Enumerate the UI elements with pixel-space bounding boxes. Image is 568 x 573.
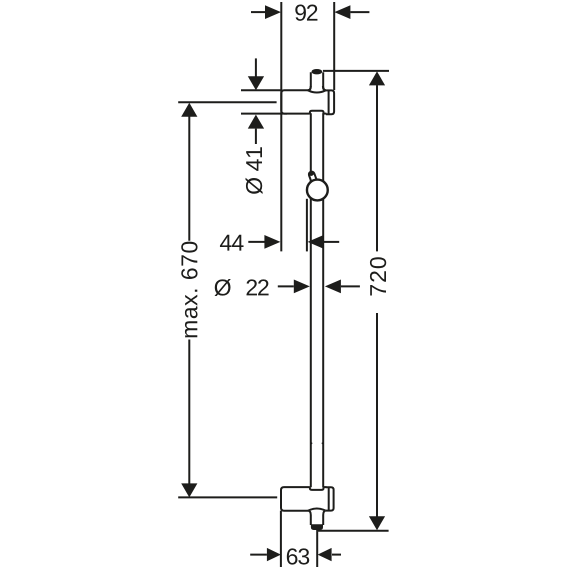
- node extension line 63 right: [316, 532, 318, 567]
- wire dimension 44 left tail: [248, 241, 264, 243]
- wire dimension max670 line lower: [188, 340, 190, 484]
- wire extension line max670 top: [178, 101, 276, 103]
- node extension line 63 left: [280, 511, 282, 567]
- label 720: [370, 257, 386, 295]
- node arrow 63 left: [318, 548, 332, 561]
- node arrow 92 right: [334, 5, 350, 19]
- node arrow 44 left: [308, 235, 324, 249]
- wire dimension 92 right tail: [350, 11, 369, 13]
- label max670: [181, 242, 197, 338]
- component rail top end cap: [312, 70, 321, 74]
- wire dimension 92 left tail: [251, 11, 265, 13]
- wire extension line 720 top: [323, 70, 389, 72]
- wire slider sleeve edge: [306, 199, 308, 252]
- wire dimension O41 lower line: [255, 129, 257, 144]
- wire rail left edge: [308, 72, 311, 525]
- component slider knob: [307, 180, 328, 201]
- node extension line 92 left / 44 left: [280, 2, 282, 251]
- wire extension line O41 bottom: [241, 113, 287, 115]
- label O22 value: [247, 279, 269, 295]
- label 92: [295, 5, 317, 21]
- node arrow 720 down: [369, 516, 385, 530]
- wire dimension 44 right tail: [324, 241, 340, 243]
- node arrow O22 right: [294, 280, 310, 294]
- node extension line 92 right: [333, 2, 335, 90]
- node arrow 720 up: [369, 71, 385, 85]
- component rail bottom end cap: [311, 524, 323, 530]
- component top wall bracket: [281, 86, 334, 114]
- node rail joint left: [311, 442, 313, 444]
- wire extension line max670 bottom: [178, 496, 277, 498]
- wire dimension O22 left tail: [278, 285, 294, 287]
- wire extension line O41 top: [241, 89, 282, 91]
- component bottom wall bracket: [281, 487, 334, 511]
- wire dimension 720 line upper: [376, 85, 378, 251]
- label 63: [287, 548, 309, 564]
- node arrow O22 left: [325, 280, 341, 294]
- node rail joint right: [322, 442, 324, 444]
- node arrow O41 up: [248, 115, 264, 129]
- node arrow max670 up: [181, 103, 197, 117]
- component slider lever: [308, 171, 318, 186]
- node arrow O41 down: [248, 76, 264, 90]
- label 44: [220, 235, 244, 251]
- node arrow max670 down: [181, 483, 197, 497]
- node arrow 44 right: [264, 235, 280, 249]
- wire dimension 63 left tail: [250, 554, 267, 556]
- label O22 diameter sign: [215, 279, 231, 296]
- wire dimension 720 line lower: [376, 313, 378, 517]
- wire dimension max670 line upper: [188, 117, 190, 241]
- wire dimension O22 right tail: [341, 285, 360, 287]
- wire extension line 720 bottom: [316, 530, 388, 532]
- wire rail right edge: [323, 72, 326, 525]
- label O41: [246, 147, 263, 194]
- wire dimension 63 right tail: [332, 554, 341, 556]
- node arrow 63 right: [267, 548, 281, 561]
- wire dimension O41 upper line: [255, 58, 257, 76]
- node arrow 92 left: [265, 5, 281, 19]
